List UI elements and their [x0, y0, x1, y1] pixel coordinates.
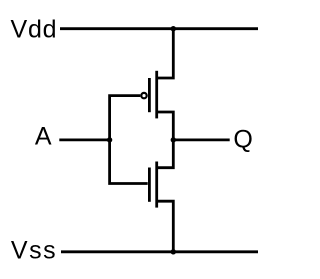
svg-text:A: A [35, 123, 52, 151]
node Vss junction [171, 249, 176, 254]
transistor Q2 NMOS channel line [155, 162, 158, 208]
transistor Q1 PMOS gate line [148, 78, 151, 112]
Vss rail [61, 250, 258, 253]
svg-text:Vdd: Vdd [11, 16, 58, 44]
wire gate bus [110, 96, 148, 184]
wire output Q [173, 138, 229, 141]
Vdd rail [60, 27, 258, 30]
transistor Q1 PMOS channel line [155, 71, 158, 119]
wire NMOS source to Vss [157, 201, 174, 252]
wire NMOS drain to output [157, 140, 174, 168]
wire PMOS drain to output [157, 112, 174, 140]
transistor Q1 PMOS gate bubble [141, 93, 146, 98]
svg-text:Vss: Vss [11, 236, 57, 264]
wire input A [59, 138, 109, 141]
node output junction [171, 137, 176, 142]
node gate bus junction [107, 137, 112, 142]
wire PMOS source to Vdd [157, 29, 174, 78]
svg-text:Q: Q [233, 126, 252, 154]
node Vdd junction [171, 26, 176, 31]
transistor Q2 NMOS gate line [148, 168, 151, 202]
